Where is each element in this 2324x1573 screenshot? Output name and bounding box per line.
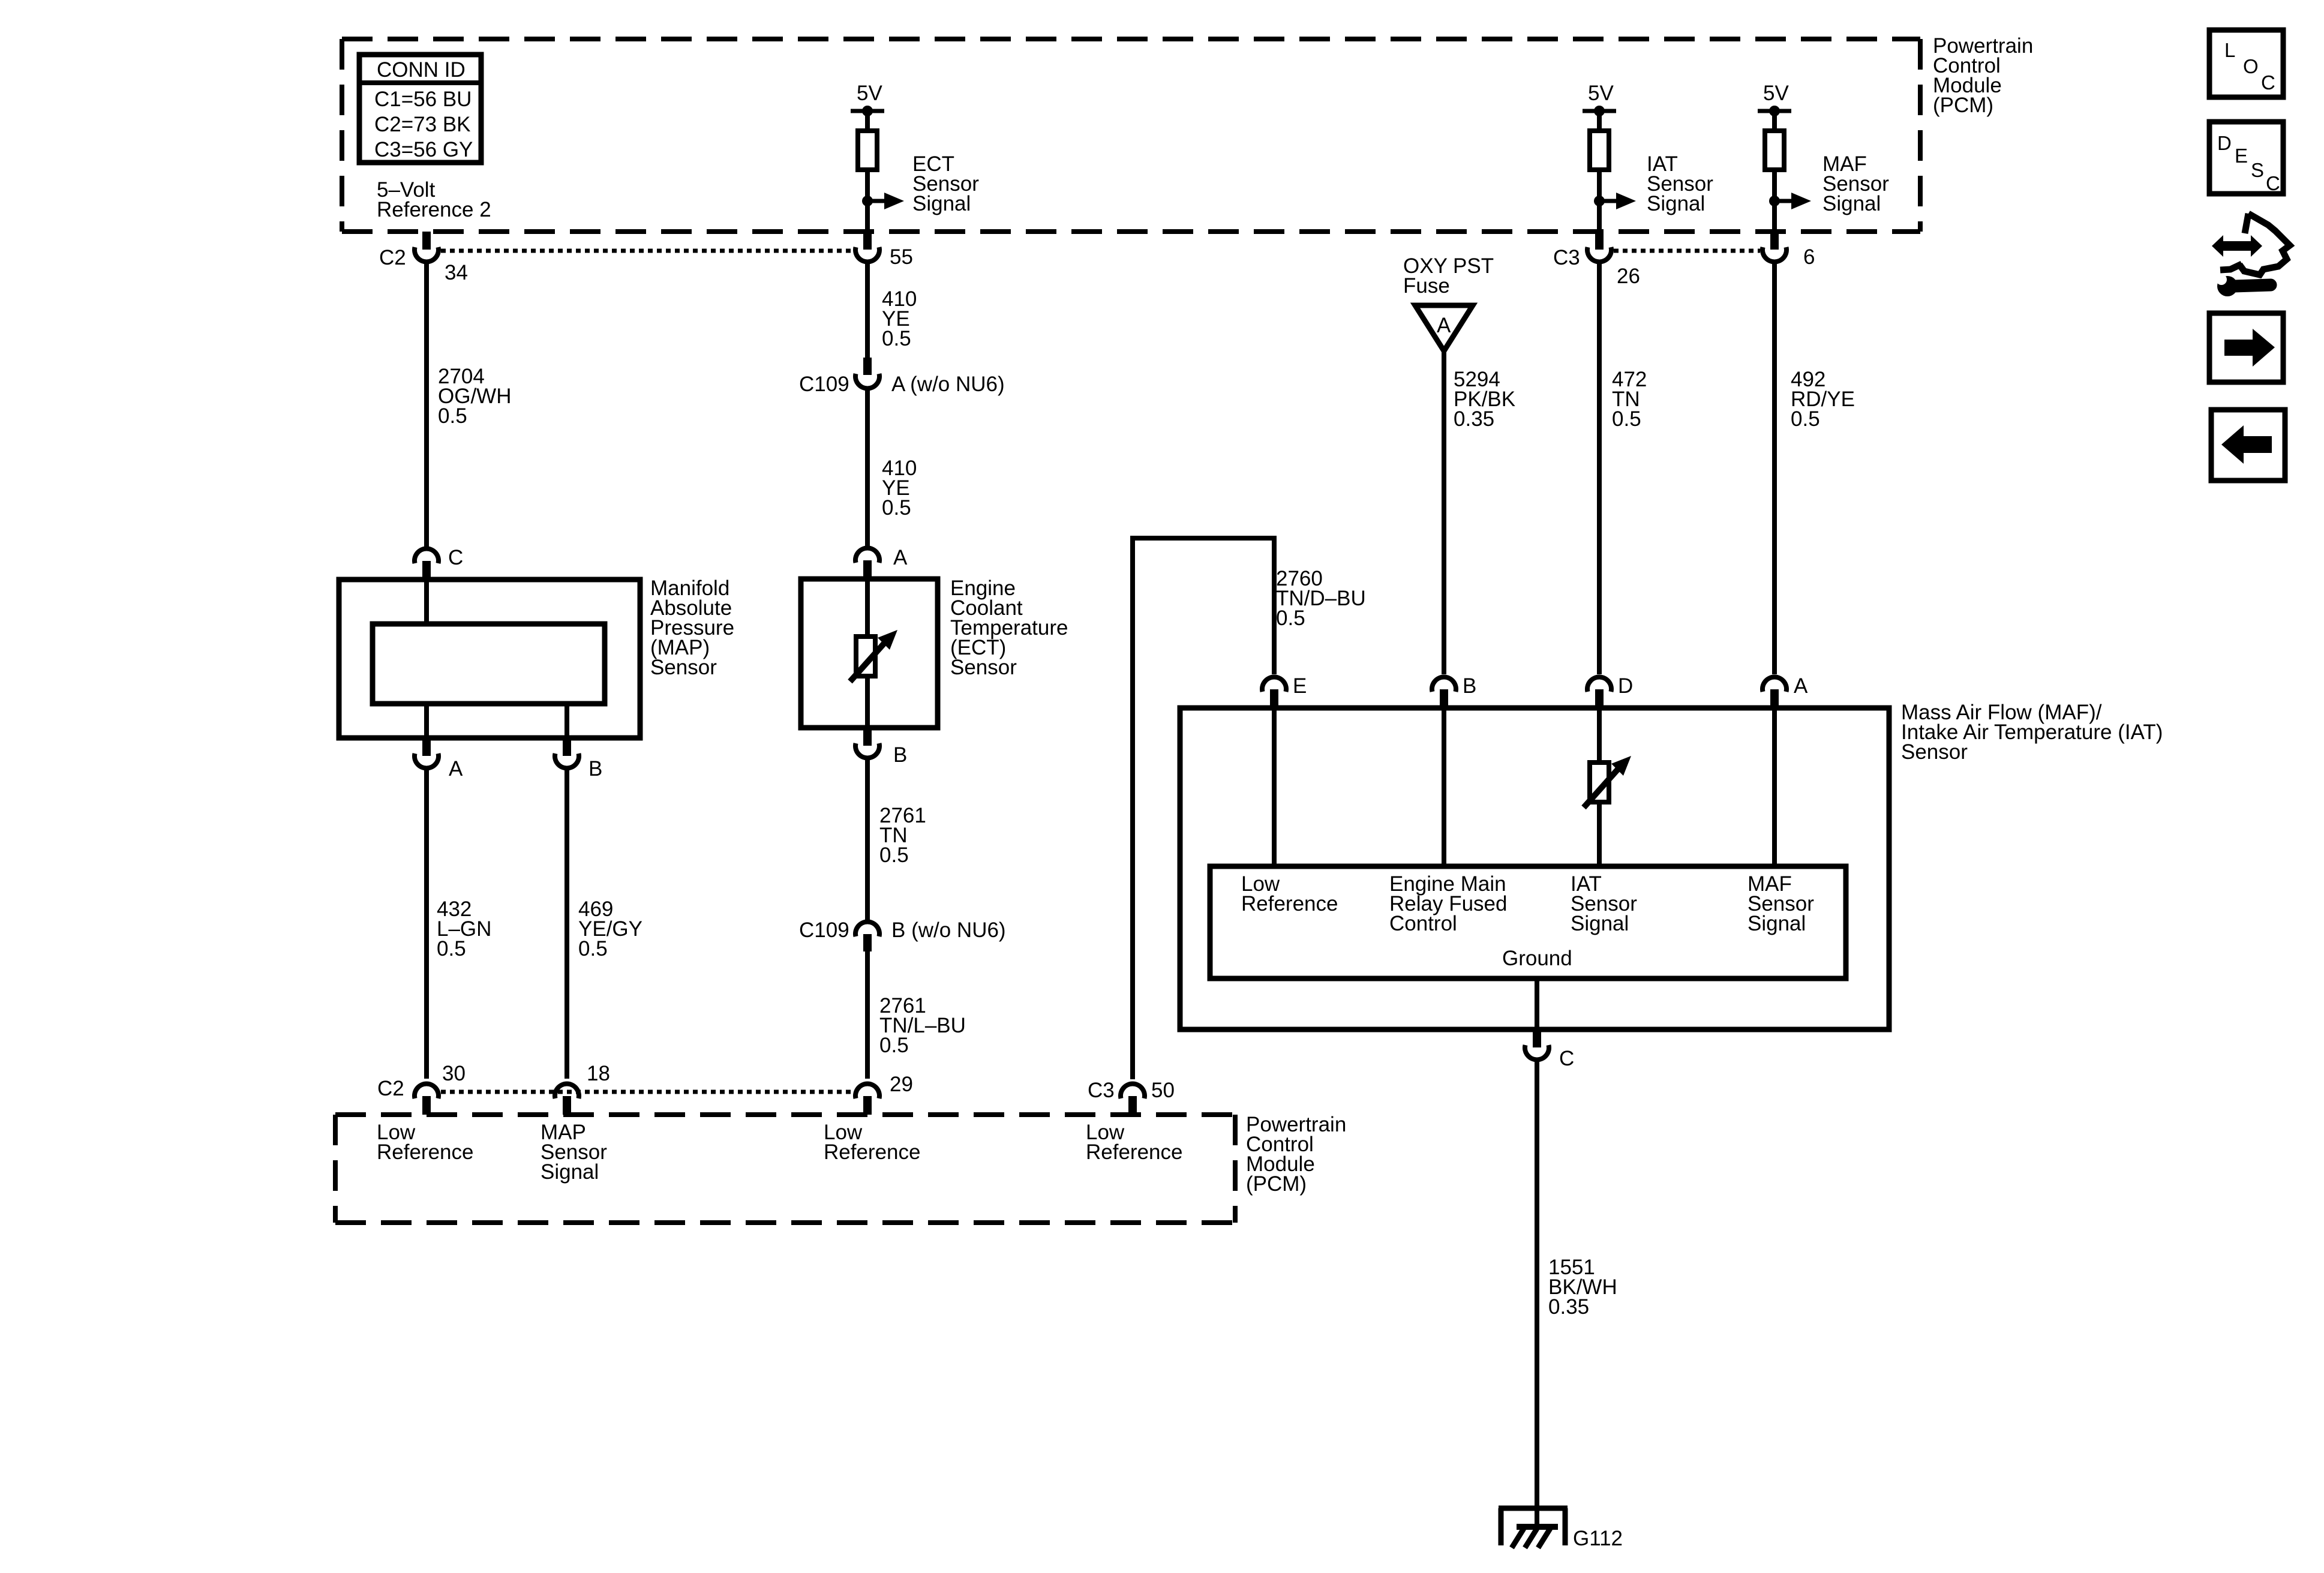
svg-text:D: D bbox=[1618, 674, 1633, 698]
svg-text:Fuse: Fuse bbox=[1403, 274, 1450, 298]
svg-text:0.35: 0.35 bbox=[1548, 1295, 1589, 1319]
svg-text:Ground: Ground bbox=[1502, 947, 1572, 970]
svg-text:0.5: 0.5 bbox=[882, 496, 911, 520]
svg-text:18: 18 bbox=[587, 1062, 610, 1085]
svg-text:C109: C109 bbox=[799, 373, 849, 396]
svg-text:30: 30 bbox=[442, 1062, 466, 1085]
svg-text:34: 34 bbox=[445, 261, 468, 284]
svg-text:(PCM): (PCM) bbox=[1933, 94, 1993, 117]
svg-text:Sensor: Sensor bbox=[650, 656, 717, 679]
svg-text:C3: C3 bbox=[1553, 246, 1580, 269]
svg-text:5V: 5V bbox=[857, 82, 882, 105]
svg-text:C3=56 GY: C3=56 GY bbox=[374, 138, 473, 161]
svg-text:Reference: Reference bbox=[1086, 1140, 1182, 1164]
svg-text:0.5: 0.5 bbox=[437, 937, 466, 960]
svg-text:A: A bbox=[893, 546, 908, 569]
svg-text:Signal: Signal bbox=[1747, 912, 1806, 935]
svg-text:Reference: Reference bbox=[1241, 892, 1338, 915]
svg-text:O: O bbox=[2243, 55, 2259, 77]
svg-text:C2: C2 bbox=[379, 246, 406, 269]
svg-text:C3: C3 bbox=[1088, 1079, 1115, 1102]
svg-text:S: S bbox=[2251, 159, 2264, 181]
svg-text:G112: G112 bbox=[1573, 1527, 1623, 1550]
svg-text:A: A bbox=[449, 757, 463, 781]
svg-text:Sensor: Sensor bbox=[1901, 740, 1968, 764]
svg-text:E: E bbox=[1293, 674, 1307, 698]
svg-text:0.5: 0.5 bbox=[879, 1034, 909, 1057]
svg-text:E: E bbox=[2235, 145, 2248, 167]
svg-text:Reference: Reference bbox=[824, 1140, 920, 1164]
svg-text:C1=56 BU: C1=56 BU bbox=[374, 88, 472, 111]
svg-text:Reference 2: Reference 2 bbox=[377, 198, 491, 221]
svg-text:Signal: Signal bbox=[1822, 192, 1881, 215]
svg-text:Control: Control bbox=[1389, 912, 1457, 935]
svg-text:Signal: Signal bbox=[541, 1160, 599, 1184]
svg-text:C: C bbox=[1559, 1047, 1574, 1070]
svg-text:0.5: 0.5 bbox=[438, 404, 467, 428]
svg-text:Sensor: Sensor bbox=[950, 656, 1017, 679]
svg-text:6: 6 bbox=[1803, 245, 1815, 269]
svg-text:Signal: Signal bbox=[912, 192, 971, 215]
svg-text:CONN ID: CONN ID bbox=[377, 58, 466, 82]
svg-text:29: 29 bbox=[890, 1073, 913, 1096]
svg-text:A (w/o NU6): A (w/o NU6) bbox=[891, 373, 1005, 396]
svg-text:0.5: 0.5 bbox=[1791, 407, 1820, 431]
svg-text:Signal: Signal bbox=[1647, 192, 1705, 215]
svg-text:0.5: 0.5 bbox=[882, 327, 911, 350]
svg-text:0.35: 0.35 bbox=[1454, 407, 1494, 431]
svg-text:Signal: Signal bbox=[1571, 912, 1629, 935]
svg-text:5V: 5V bbox=[1763, 82, 1789, 105]
svg-text:C: C bbox=[2266, 172, 2280, 194]
svg-text:0.5: 0.5 bbox=[1612, 407, 1641, 431]
svg-text:B (w/o NU6): B (w/o NU6) bbox=[891, 918, 1006, 942]
svg-text:C: C bbox=[448, 546, 463, 569]
svg-text:5V: 5V bbox=[1588, 82, 1614, 105]
svg-text:D: D bbox=[2217, 132, 2232, 154]
svg-text:B: B bbox=[1463, 674, 1476, 698]
svg-text:26: 26 bbox=[1617, 265, 1640, 288]
svg-text:50: 50 bbox=[1151, 1079, 1175, 1102]
svg-text:C2: C2 bbox=[377, 1077, 404, 1100]
svg-text:A: A bbox=[1794, 674, 1808, 698]
svg-text:C2=73 BK: C2=73 BK bbox=[374, 113, 471, 136]
svg-text:L: L bbox=[2224, 39, 2235, 61]
svg-text:A: A bbox=[1437, 314, 1451, 337]
svg-text:0.5: 0.5 bbox=[1276, 607, 1305, 630]
svg-text:C109: C109 bbox=[799, 918, 849, 942]
svg-text:0.5: 0.5 bbox=[578, 937, 608, 960]
svg-text:(PCM): (PCM) bbox=[1246, 1172, 1307, 1196]
svg-text:Reference: Reference bbox=[377, 1140, 473, 1164]
svg-text:B: B bbox=[588, 757, 602, 781]
svg-text:B: B bbox=[893, 743, 907, 767]
svg-text:0.5: 0.5 bbox=[879, 843, 909, 867]
svg-text:55: 55 bbox=[890, 245, 913, 269]
svg-text:C: C bbox=[2261, 71, 2275, 94]
